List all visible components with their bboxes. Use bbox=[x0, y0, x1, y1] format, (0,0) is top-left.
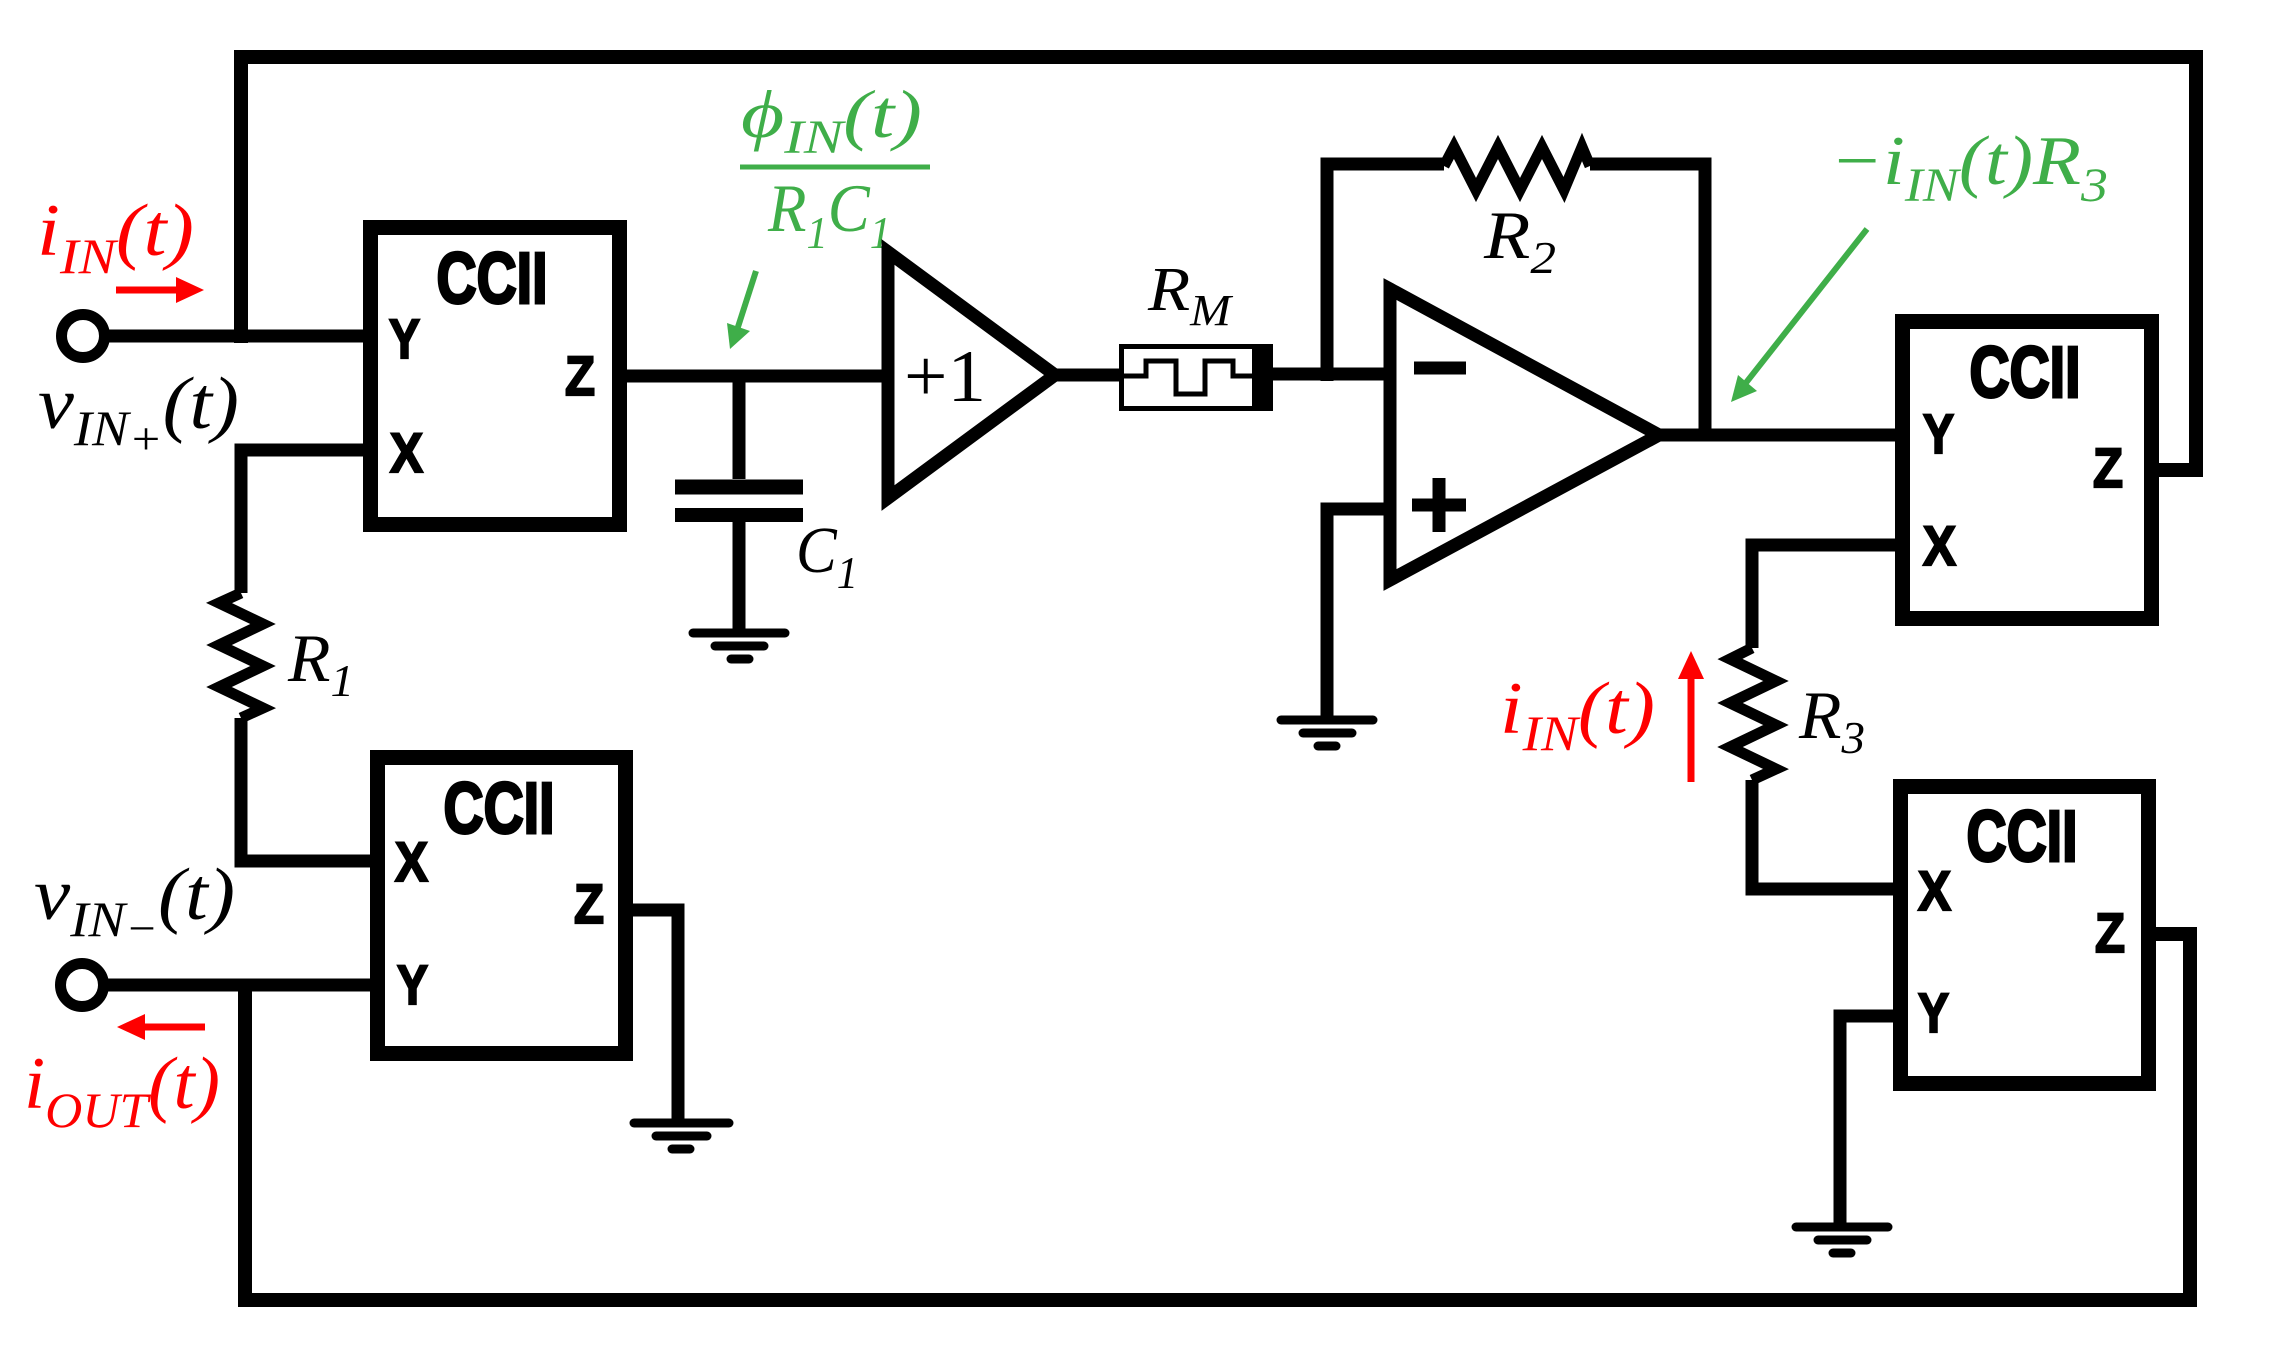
resistor R2 bbox=[1444, 147, 1590, 190]
CCII U2 (bottom-left current conveyor) bbox=[378, 758, 626, 1054]
capacitor C1 bbox=[733, 376, 746, 479]
wire U2 pin Z to ground bbox=[625, 910, 678, 1119]
svg-text:+1: +1 bbox=[904, 336, 986, 418]
arrow to op-amp output (green) bbox=[1731, 229, 1867, 402]
wire U3 pin X to R3 top bbox=[1752, 545, 1902, 648]
wire buffer output to memristor RM bbox=[1055, 369, 1121, 382]
svg-text:X: X bbox=[1923, 514, 1956, 577]
svg-text:CCII: CCII bbox=[444, 769, 555, 849]
svg-text:Y: Y bbox=[389, 307, 420, 370]
arrow to node phi (green) bbox=[727, 271, 756, 349]
svg-text:Z: Z bbox=[2095, 901, 2125, 964]
svg-text:Z: Z bbox=[565, 344, 595, 407]
wire op-amp non-inverting input to ground bbox=[1327, 509, 1390, 717]
op-amp U5 bbox=[1390, 289, 1659, 580]
svg-text:CCII: CCII bbox=[1967, 797, 2078, 877]
wire v_IN- terminal to CCII U2 pin Y bbox=[104, 979, 377, 992]
arrow i_IN direction (red, right) bbox=[116, 277, 204, 303]
svg-text:X: X bbox=[395, 830, 428, 893]
svg-text:CCII: CCII bbox=[437, 239, 548, 319]
ground (below op-amp +) bbox=[1281, 720, 1373, 746]
arrow i_IN up (red) bbox=[1678, 651, 1704, 782]
wire outer loop top: left riser, top border, right border down to CCII3 Z bbox=[241, 57, 2196, 470]
wire op-amp output to CCII U3 pin Y bbox=[1655, 429, 1902, 442]
wire R3 bottom to CCII U4 pin X bbox=[1752, 780, 1900, 889]
wire U1 pin X to R1 top bbox=[241, 450, 366, 593]
svg-text:X: X bbox=[390, 421, 423, 484]
wire v_IN+ terminal to CCII U1 pin Y bbox=[105, 330, 366, 343]
CCII U4 (bottom-right current conveyor) bbox=[1901, 787, 2149, 1084]
memristor RM bbox=[1121, 344, 1273, 411]
svg-text:−iIN(t)R3: −iIN(t)R3 bbox=[1830, 123, 2108, 212]
current conveyor U1 CCII (top-left) bbox=[371, 228, 620, 525]
svg-text:Z: Z bbox=[574, 872, 604, 935]
wire R2 to op-amp output (right riser) bbox=[1590, 164, 1705, 435]
terminal v_IN+ bbox=[62, 315, 105, 358]
arrow i_OUT direction (red, left) bbox=[117, 1014, 205, 1040]
wire R1 bottom to CCII U2 pin X bbox=[241, 718, 377, 861]
wire outer loop bottom: junction at v_IN- wire, bottom border, right riser to CCII4 Z bbox=[245, 934, 2190, 1300]
wire U1 pin Z to +1 buffer input (node phi) bbox=[620, 370, 888, 383]
svg-text:CCII: CCII bbox=[1970, 333, 2081, 413]
resistor R3 bbox=[1730, 648, 1776, 780]
svg-text:Y: Y bbox=[1918, 981, 1949, 1044]
svg-text:Z: Z bbox=[2093, 436, 2123, 499]
svg-text:Y: Y bbox=[1923, 402, 1954, 465]
CCII U3 (right current conveyor) bbox=[1903, 322, 2152, 619]
wire U4 pin Y to ground bbox=[1840, 1016, 1900, 1224]
buffer +1 bbox=[888, 252, 1055, 498]
svg-text:Y: Y bbox=[397, 953, 428, 1016]
svg-text:X: X bbox=[1918, 859, 1951, 922]
wire feedback left riser (inverting node to R2) bbox=[1327, 164, 1444, 381]
ground (below U2 Z) bbox=[634, 1123, 729, 1149]
ground (below U4 Y) bbox=[1796, 1227, 1888, 1253]
wire memristor RM to op-amp inverting input bbox=[1273, 368, 1390, 381]
op-amp plus sign bbox=[1412, 478, 1466, 532]
resistor R1 bbox=[219, 593, 263, 718]
terminal v_IN- bbox=[61, 964, 104, 1007]
op-amp minus sign bbox=[1414, 362, 1466, 375]
ground (below C1) bbox=[693, 633, 785, 659]
